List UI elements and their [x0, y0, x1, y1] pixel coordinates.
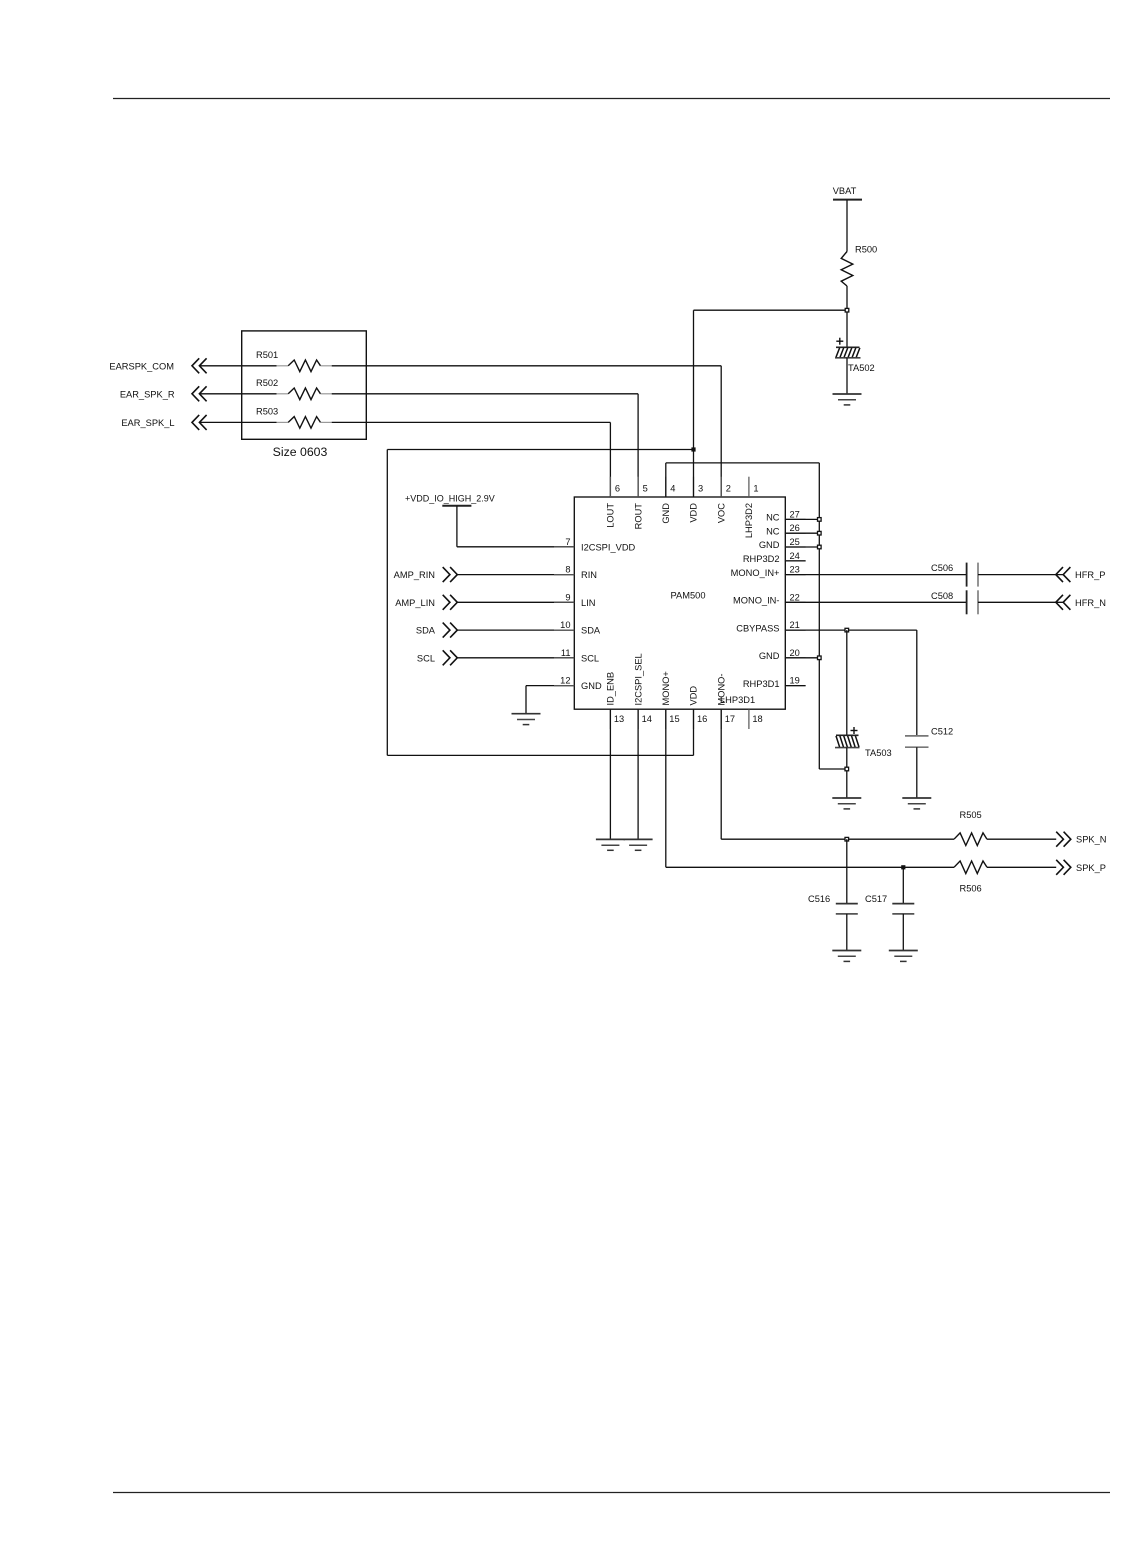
resistor R506: [954, 861, 987, 894]
svg-text:13: 13: [614, 714, 624, 724]
wire ground bus vertical: [818, 463, 820, 769]
svg-text:C517: C517: [865, 894, 887, 904]
pin 3 VDD (top): [689, 477, 703, 523]
port SPK_P: [1056, 860, 1106, 875]
pin 6 LOUT (top): [606, 477, 620, 528]
svg-text:26: 26: [790, 523, 800, 533]
svg-text:MONO_IN-: MONO_IN-: [733, 596, 780, 606]
svg-text:VBAT: VBAT: [833, 186, 857, 196]
node pin 25 bus junction: [818, 545, 822, 549]
svg-text:PAM500: PAM500: [671, 591, 706, 601]
pin 13 ID_ENB (bottom): [606, 672, 625, 729]
port EAR_SPK_R: [120, 386, 207, 401]
capacitor TA503: [835, 727, 892, 758]
wire VBAT to R500: [846, 200, 848, 252]
svg-text:LOUT: LOUT: [606, 503, 616, 528]
wire C508 to HFR_N: [978, 601, 1063, 603]
capacitor C508: [931, 590, 978, 614]
ground (below TA502): [833, 394, 862, 405]
resistor R505: [954, 810, 987, 846]
wire pin 22 MONO_IN- to C508: [785, 601, 967, 603]
svg-text:C516: C516: [808, 894, 830, 904]
pin 25 GND (right): [759, 537, 806, 550]
node TA503 ground-bus junction: [845, 767, 849, 771]
ground (below C517): [889, 951, 918, 962]
svg-text:R500: R500: [855, 245, 877, 255]
wire pin 19 stub: [785, 685, 806, 687]
svg-text:23: 23: [790, 565, 800, 575]
ground (pin 13): [596, 839, 625, 850]
svg-text:20: 20: [790, 648, 800, 658]
node VDD loop junction: [691, 447, 695, 451]
port EARSPK_COM: [109, 358, 206, 373]
svg-text:GND: GND: [661, 503, 671, 524]
power symbol VBAT: [833, 186, 862, 200]
svg-text:EAR_SPK_R: EAR_SPK_R: [120, 389, 175, 399]
node SPK_P junction (C517 tap): [901, 865, 905, 869]
svg-text:SPK_P: SPK_P: [1076, 863, 1106, 873]
wire pin 16 VDD loop around left: [693, 709, 695, 755]
svg-text:RHP3D2: RHP3D2: [743, 554, 780, 564]
svg-text:VDD: VDD: [689, 503, 699, 523]
svg-text:12: 12: [560, 676, 570, 686]
port AMP_RIN: [394, 567, 458, 582]
wire EAR_SPK_L to resistor R503: [200, 421, 277, 423]
capacitor C516: [808, 894, 858, 914]
ground (pin 12): [512, 714, 541, 725]
svg-text:SCL: SCL: [417, 653, 435, 663]
svg-text:24: 24: [790, 551, 800, 561]
port SPK_N: [1056, 832, 1106, 847]
wire TA503 to ground: [846, 748, 848, 798]
pin 18 LHP3D1 (bottom): [720, 695, 763, 729]
svg-text:27: 27: [790, 509, 800, 519]
svg-text:18: 18: [752, 714, 762, 724]
wire SPK_P junction down to C517: [902, 867, 904, 903]
svg-text:EARSPK_COM: EARSPK_COM: [109, 361, 174, 371]
svg-text:SCL: SCL: [581, 653, 599, 663]
wire pin 15 MONO+ down and right: [665, 709, 667, 867]
wire pin 12 GND to ground: [526, 685, 574, 687]
svg-text:C508: C508: [931, 591, 953, 601]
wire pin 20 to bus: [785, 657, 819, 659]
pin 5 ROUT (top): [633, 477, 647, 530]
ground (below C512): [902, 798, 931, 809]
svg-text:HFR_N: HFR_N: [1075, 598, 1106, 608]
svg-text:LIN: LIN: [581, 598, 595, 608]
wire SCL to IC: [457, 657, 574, 659]
svg-text:I2CSPI_SEL: I2CSPI_SEL: [633, 653, 643, 705]
svg-text:R501: R501: [256, 350, 278, 360]
pin 15 MONO+ (bottom): [661, 671, 680, 729]
svg-text:GND: GND: [759, 651, 780, 661]
capacitor C506: [931, 563, 978, 587]
wire C516 to ground: [846, 914, 848, 951]
svg-text:VDD: VDD: [689, 686, 699, 706]
pin 4 GND (top): [661, 477, 675, 524]
wire pin 3 VDD vertical: [693, 310, 695, 497]
wire AMP_LIN to IC: [457, 601, 574, 603]
capacitor TA502: [835, 338, 875, 373]
svg-text:+VDD_IO_HIGH_2.9V: +VDD_IO_HIGH_2.9V: [405, 494, 495, 504]
wire pin 13 ID_ENB to ground: [609, 709, 611, 839]
pin 27 NC (right): [766, 509, 806, 522]
wire R502 to pin 5 ROUT: [332, 393, 638, 395]
svg-text:SDA: SDA: [581, 626, 601, 636]
resistor pack outline box Size 0603: [242, 331, 367, 459]
wire pin 26 to bus: [785, 532, 819, 534]
svg-text:16: 16: [697, 714, 707, 724]
wire CBYPASS down to TA503: [846, 630, 848, 735]
svg-text:2: 2: [726, 484, 731, 494]
wire EARSPK_COM to resistor R501: [200, 365, 277, 367]
svg-text:5: 5: [643, 484, 648, 494]
port EAR_SPK_L: [121, 415, 206, 430]
svg-text:MONO_IN+: MONO_IN+: [731, 568, 780, 578]
wire TA502 to ground: [846, 358, 848, 394]
svg-text:NC: NC: [766, 513, 780, 523]
svg-text:RHP3D1: RHP3D1: [743, 679, 780, 689]
pin 17 MONO- (bottom): [716, 673, 735, 729]
resistor R500: [841, 245, 877, 287]
pin 26 NC (right): [766, 523, 806, 536]
pin 20 GND (right): [759, 648, 806, 661]
svg-text:25: 25: [790, 537, 800, 547]
svg-text:9: 9: [565, 592, 570, 602]
pin 14 I2CSPI_SEL (bottom): [633, 653, 652, 729]
svg-text:8: 8: [565, 565, 570, 575]
node SPK_N junction (C516 tap): [845, 837, 849, 841]
wire pin 4 GND up and right to ground bus: [665, 463, 667, 497]
svg-text:1: 1: [753, 484, 758, 494]
port AMP_LIN: [395, 595, 457, 610]
wire C517 to ground: [902, 914, 904, 951]
pin 2 VOC (top): [716, 477, 730, 523]
wire R506 to SPK_P: [987, 866, 1056, 868]
pin 8 RIN (left): [554, 565, 597, 581]
svg-text:Size 0603: Size 0603: [273, 445, 328, 459]
svg-text:7: 7: [565, 537, 570, 547]
wire CBYPASS down to C512: [916, 630, 918, 736]
wire pin 25 to bus: [785, 546, 819, 548]
svg-text:HFR_P: HFR_P: [1075, 570, 1105, 580]
svg-text:LHP3D2: LHP3D2: [744, 503, 754, 538]
pin 22 MONO_IN- (right): [733, 592, 806, 605]
svg-text:10: 10: [560, 620, 570, 630]
svg-text:19: 19: [790, 676, 800, 686]
IC PAM500 audio amplifier body: [574, 497, 785, 709]
pin 19 RHP3D1 (right): [743, 676, 806, 689]
svg-text:NC: NC: [766, 526, 780, 536]
wire pin 27 to bus: [785, 518, 819, 520]
svg-text:21: 21: [790, 620, 800, 630]
pin 1 LHP3D2 (top): [744, 477, 758, 538]
wire C512 to ground: [916, 747, 918, 798]
wire SDA to IC: [457, 629, 574, 631]
wire SPK_N junction down to C516: [846, 839, 848, 903]
node pin 20 bus junction: [818, 656, 822, 660]
pin 11 SCL (left): [554, 648, 599, 664]
pin 24 RHP3D2 (right): [743, 551, 806, 564]
wire R500 to VDD node: [846, 286, 848, 347]
svg-text:I2CSPI_VDD: I2CSPI_VDD: [581, 542, 636, 552]
port SCL: [417, 650, 457, 665]
svg-text:C506: C506: [931, 563, 953, 573]
resistor R501: [256, 350, 332, 372]
svg-text:GND: GND: [581, 681, 602, 691]
svg-text:CBYPASS: CBYPASS: [736, 623, 779, 633]
pin 10 SDA (left): [554, 620, 601, 636]
svg-text:RIN: RIN: [581, 570, 597, 580]
wire pin 23 MONO_IN+ to C506: [785, 574, 967, 576]
svg-text:11: 11: [561, 648, 571, 658]
capacitor C517: [865, 894, 914, 914]
pin 21 CBYPASS (right): [736, 620, 805, 633]
wire +VDD_IO_HIGH_2.9V to pin 7: [456, 506, 458, 547]
node CBYPASS junction TA503: [845, 628, 849, 632]
svg-text:SDA: SDA: [416, 626, 436, 636]
ground (below TA503): [832, 798, 861, 809]
svg-text:TA503: TA503: [865, 748, 892, 758]
svg-text:R506: R506: [960, 884, 982, 894]
svg-text:R505: R505: [960, 810, 982, 820]
pin 9 LIN (left): [554, 592, 595, 608]
wire C506 to HFR_P: [978, 574, 1063, 576]
wire VDD node to pin 3 column: [694, 309, 848, 311]
svg-text:LHP3D1: LHP3D1: [720, 695, 755, 705]
svg-text:22: 22: [790, 592, 800, 602]
svg-text:17: 17: [725, 714, 735, 724]
pin 7 I2CSPI_VDD (left): [554, 537, 636, 553]
svg-text:GND: GND: [759, 540, 780, 550]
svg-text:TA502: TA502: [848, 363, 875, 373]
wire pin 14 I2CSPI_SEL to ground: [637, 709, 639, 839]
pin 16 VDD (bottom): [689, 686, 708, 729]
wire AMP_RIN to IC: [457, 574, 574, 576]
port SDA: [416, 623, 457, 638]
wire pin 17 MONO- down and right: [720, 709, 722, 839]
wire pin 21 CBYPASS to C512 column: [785, 629, 917, 631]
svg-text:6: 6: [615, 484, 620, 494]
wire EAR_SPK_R to resistor R502: [200, 393, 277, 395]
wire pin 24 stub: [785, 560, 806, 562]
svg-text:R503: R503: [256, 407, 278, 417]
svg-text:3: 3: [698, 484, 703, 494]
node pin 26 bus junction: [818, 531, 822, 535]
svg-text:R502: R502: [256, 378, 278, 388]
port HFR_N: [1056, 595, 1106, 610]
svg-text:AMP_RIN: AMP_RIN: [394, 570, 435, 580]
power symbol +VDD_IO_HIGH_2.9V: [405, 494, 495, 506]
svg-text:VOC: VOC: [716, 503, 726, 523]
node VDD junction at R500/TA502: [845, 308, 849, 312]
svg-text:C512: C512: [931, 727, 953, 737]
svg-text:ROUT: ROUT: [633, 503, 643, 530]
ground (below C516): [832, 951, 861, 962]
svg-text:AMP_LIN: AMP_LIN: [395, 598, 435, 608]
svg-text:EAR_SPK_L: EAR_SPK_L: [121, 418, 174, 428]
wire R503 to pin 6 LOUT: [332, 421, 611, 423]
svg-text:MONO+: MONO+: [661, 671, 671, 705]
svg-text:14: 14: [642, 714, 652, 724]
ground (pin 14): [624, 839, 653, 850]
capacitor C512: [905, 727, 953, 748]
pin 12 GND (left): [554, 676, 602, 692]
pin 23 MONO_IN+ (right): [731, 565, 806, 578]
svg-text:15: 15: [669, 714, 679, 724]
node pin 27 bus junction: [818, 518, 822, 522]
svg-text:ID_ENB: ID_ENB: [606, 672, 616, 706]
resistor R503: [256, 407, 332, 429]
svg-text:SPK_N: SPK_N: [1076, 835, 1107, 845]
wire R505 to SPK_N: [987, 838, 1056, 840]
svg-text:4: 4: [670, 484, 675, 494]
wire R501 to pin 2 VOC: [332, 365, 722, 367]
resistor R502: [256, 378, 332, 400]
port HFR_P: [1056, 567, 1106, 582]
